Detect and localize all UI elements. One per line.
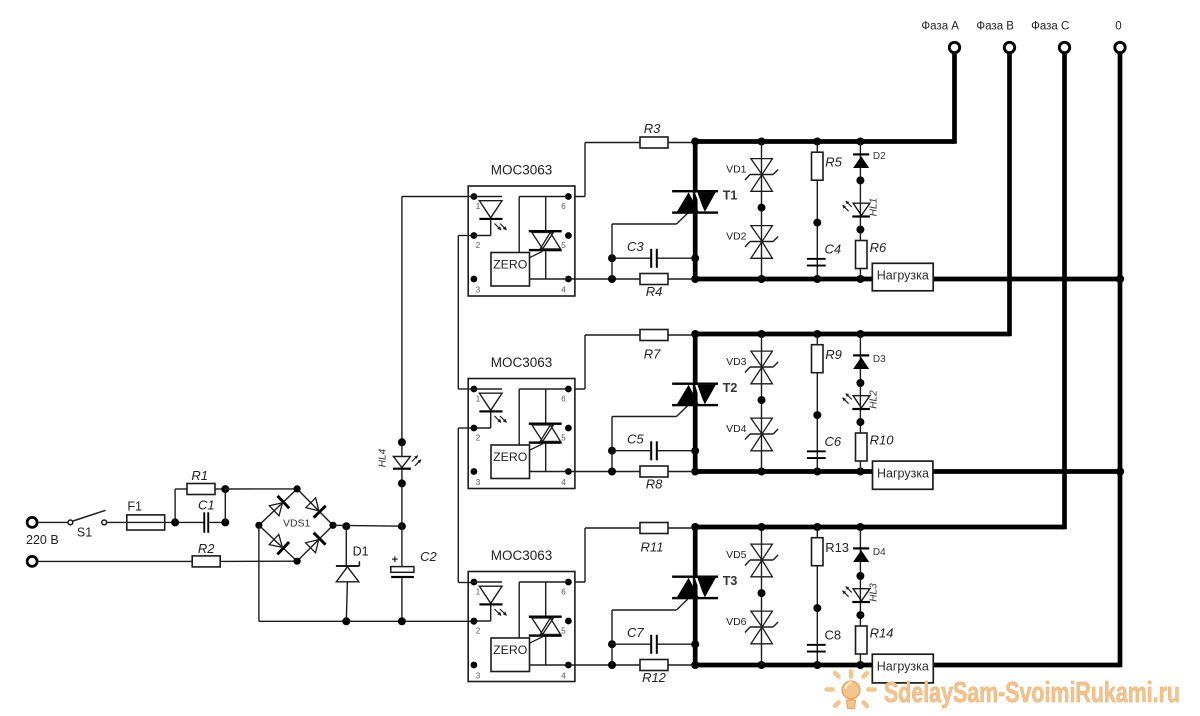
svg-text:Нагрузка: Нагрузка	[877, 269, 929, 283]
svg-text:VD2: VD2	[726, 230, 747, 242]
svg-text:VD4: VD4	[726, 423, 747, 435]
svg-text:C7: C7	[627, 625, 644, 640]
svg-text:R14: R14	[870, 626, 894, 641]
svg-text:6: 6	[561, 395, 566, 404]
svg-text:D2: D2	[873, 151, 886, 162]
svg-text:C1: C1	[198, 498, 215, 513]
svg-text:VD6: VD6	[726, 616, 747, 628]
svg-text:Фаза В: Фаза В	[976, 21, 1014, 33]
svg-text:C3: C3	[627, 239, 644, 254]
svg-text:6: 6	[561, 202, 566, 211]
svg-text:Фаза А: Фаза А	[921, 21, 959, 33]
svg-text:ZERO: ZERO	[493, 258, 527, 272]
svg-text:1: 1	[476, 395, 481, 404]
svg-text:+: +	[392, 554, 398, 566]
svg-text:D4: D4	[873, 547, 886, 558]
svg-text:R5: R5	[825, 155, 842, 170]
svg-text:D3: D3	[873, 354, 886, 365]
svg-text:1: 1	[476, 202, 481, 211]
svg-text:HL2: HL2	[869, 390, 880, 409]
svg-text:4: 4	[561, 478, 566, 487]
svg-text:VD5: VD5	[726, 549, 747, 561]
svg-text:2: 2	[476, 241, 481, 250]
svg-text:220 В: 220 В	[26, 533, 59, 547]
svg-text:5: 5	[561, 627, 566, 636]
svg-text:4: 4	[561, 286, 566, 295]
svg-text:Фаза С: Фаза С	[1031, 21, 1069, 33]
svg-text:4: 4	[561, 672, 566, 681]
svg-text:R1: R1	[191, 468, 208, 483]
svg-text:R7: R7	[644, 347, 661, 362]
svg-text:D1: D1	[353, 545, 369, 559]
svg-text:C8: C8	[825, 628, 842, 643]
svg-text:2: 2	[476, 434, 481, 443]
svg-text:3: 3	[476, 672, 481, 681]
svg-text:C5: C5	[627, 431, 644, 446]
svg-text:ZERO: ZERO	[493, 450, 527, 464]
svg-text:HL3: HL3	[869, 583, 880, 602]
svg-text:R9: R9	[825, 347, 842, 362]
svg-text:Нагрузка: Нагрузка	[877, 467, 929, 481]
svg-text:Нагрузка: Нагрузка	[877, 660, 929, 674]
svg-text:R3: R3	[644, 121, 661, 136]
svg-text:VD3: VD3	[726, 356, 747, 368]
svg-text:1: 1	[476, 588, 481, 597]
svg-text:R12: R12	[642, 670, 667, 685]
svg-text:R6: R6	[870, 240, 887, 255]
svg-text:T2: T2	[723, 381, 738, 395]
svg-text:R11: R11	[641, 540, 664, 555]
svg-text:0: 0	[1115, 21, 1121, 33]
svg-text:6: 6	[561, 588, 566, 597]
svg-text:T1: T1	[723, 189, 738, 203]
svg-text:C6: C6	[825, 434, 842, 449]
svg-text:VDS1: VDS1	[283, 518, 311, 530]
svg-text:2: 2	[476, 627, 481, 636]
svg-text:3: 3	[476, 286, 481, 295]
svg-text:3: 3	[476, 478, 481, 487]
svg-text:HL1: HL1	[869, 198, 880, 216]
svg-text:MOC3063: MOC3063	[491, 163, 553, 178]
svg-text:S1: S1	[77, 526, 92, 540]
svg-text:HL4: HL4	[378, 448, 389, 467]
svg-text:ZERO: ZERO	[493, 643, 527, 657]
svg-text:VD1: VD1	[726, 163, 747, 175]
svg-text:R10: R10	[870, 433, 895, 448]
svg-text:R4: R4	[646, 284, 663, 299]
svg-text:SdelaySam-SvoimiRukami.ru: SdelaySam-SvoimiRukami.ru	[884, 677, 1180, 709]
svg-text:F1: F1	[127, 500, 142, 514]
svg-text:R2: R2	[198, 541, 215, 556]
svg-text:MOC3063: MOC3063	[491, 355, 553, 370]
svg-text:MOC3063: MOC3063	[491, 548, 553, 563]
svg-text:5: 5	[561, 434, 566, 443]
svg-text:R13: R13	[825, 540, 849, 555]
svg-text:5: 5	[561, 241, 566, 250]
svg-text:R8: R8	[646, 477, 663, 492]
svg-text:T3: T3	[723, 574, 738, 588]
svg-text:C4: C4	[825, 242, 842, 257]
svg-text:C2: C2	[420, 549, 437, 564]
